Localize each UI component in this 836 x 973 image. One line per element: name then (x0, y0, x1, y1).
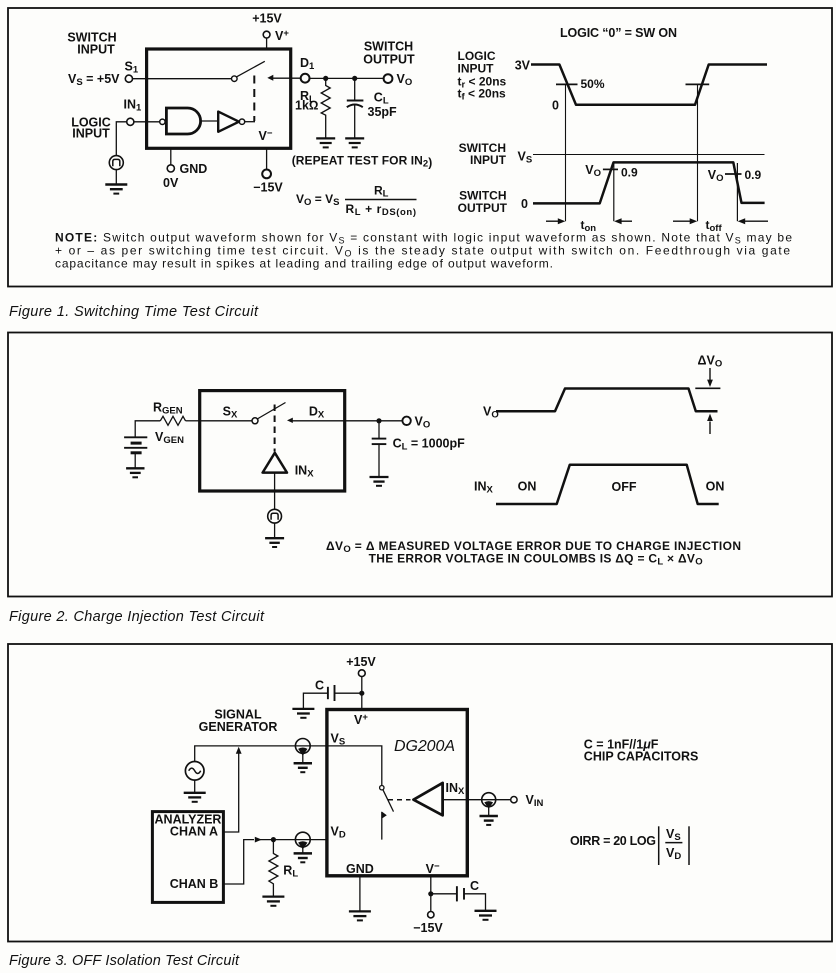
FIGURE 2 FRAME (8, 333, 832, 597)
terminal D1 (301, 74, 310, 83)
svg-text:0V: 0V (163, 176, 179, 190)
50% tick rising (686, 83, 710, 85)
svg-text:capacitance may result in spik: capacitance may result in spikes at lead… (55, 256, 553, 270)
delta arrow down (709, 368, 711, 380)
svg-text:INPUT: INPUT (470, 153, 507, 167)
switch lever fig3 (383, 790, 394, 812)
wire junction to cap (335, 692, 362, 694)
svg-text:VS = +5V: VS = +5V (68, 72, 120, 88)
junction C bottom (428, 891, 433, 896)
ground VS probe (294, 762, 312, 765)
arrow CHAN A up (236, 747, 242, 754)
IC box U1 (147, 49, 291, 148)
svg-text:+15V: +15V (346, 655, 376, 669)
svg-text:ON: ON (706, 479, 725, 493)
arrow into toff right (744, 220, 769, 222)
FIGURE 3 FRAME (8, 644, 832, 942)
wire pulse to ground fig2 (274, 523, 276, 538)
wire battery to ground (134, 454, 136, 468)
resistor RGEN (160, 416, 185, 425)
wire gate to inverter (201, 120, 218, 122)
inverter U3 (218, 112, 239, 132)
IC box U1 fig2 (200, 391, 345, 491)
reference line ton start (565, 85, 567, 222)
svg-text:Figure 2. Charge Injection Tes: Figure 2. Charge Injection Test Circuit (9, 609, 265, 625)
terminal -15V fig3 (428, 912, 434, 918)
ground pulse fig2 (265, 537, 284, 539)
arrow into ton right (620, 220, 633, 222)
wire IN1 to gate (134, 121, 160, 123)
inverter INX fig3 (414, 783, 443, 815)
ground VGEN (126, 467, 144, 469)
terminal IN1 (127, 118, 134, 125)
capacitor C bottom (456, 886, 458, 901)
wire pulse to ground (115, 170, 117, 184)
switch input VS line (533, 154, 765, 156)
arrow into ton left (546, 220, 560, 222)
svg-text:1kΩ: 1kΩ (295, 99, 319, 113)
pin GND wire (170, 148, 172, 165)
junction RL fig3 (271, 837, 276, 842)
svg-text:35pF: 35pF (368, 105, 398, 119)
svg-text:INPUT: INPUT (72, 126, 110, 140)
wire V- (266, 148, 268, 169)
wire box to SX pole (200, 420, 252, 422)
resistor RL (321, 78, 330, 138)
FIGURE 1 FRAME (8, 8, 832, 287)
terminal VO fig2 (402, 417, 410, 425)
svg-text:0: 0 (521, 197, 528, 211)
svg-text:LOGIC “0” = SW ON: LOGIC “0” = SW ON (560, 26, 677, 40)
wire V- pin down (430, 876, 432, 912)
terminal +15V fig3 (358, 670, 365, 677)
wire CHAN A (223, 753, 238, 833)
svg-text:OUTPUT: OUTPUT (363, 53, 415, 67)
svg-text:CHAN B: CHAN B (170, 877, 219, 891)
delta extension line (695, 387, 720, 389)
junction CL fig2 (376, 418, 381, 423)
svg-text:GND: GND (180, 162, 208, 176)
reference line ton end (613, 162, 615, 221)
ground pulse source (105, 183, 127, 185)
svg-text:Figure 3. OFF Isolation Test C: Figure 3. OFF Isolation Test Circuit (9, 953, 240, 969)
wire V+ (266, 38, 268, 49)
capacitor CL fig2 (378, 421, 380, 438)
wire bubble to actuator (245, 121, 255, 123)
wire junction to cap bottom (431, 893, 457, 895)
terminal V+ (263, 31, 270, 38)
inverter output bubble (239, 119, 244, 124)
switch throw arrow fig3 (382, 811, 387, 818)
svg-text:OUTPUT: OUTPUT (458, 201, 508, 215)
ground sine (184, 792, 206, 794)
svg-text:−15V: −15V (413, 921, 443, 935)
wire VGEN to RGEN (135, 421, 160, 437)
ground CL (345, 137, 364, 139)
delta arrow up (709, 422, 711, 435)
logic input waveform (531, 65, 767, 105)
svg-text:50%: 50% (581, 77, 605, 91)
0.9 tick rising output (603, 168, 618, 170)
switch wire VS internal (327, 746, 382, 786)
pulse generator fig2 (268, 509, 282, 523)
junction CL (352, 76, 357, 81)
junction RL (323, 76, 328, 81)
svg-text:C: C (315, 679, 324, 693)
arrow into toff left (673, 220, 692, 222)
svg-text:0.9: 0.9 (745, 168, 762, 182)
AND gate U2 (166, 108, 200, 134)
sine source (185, 762, 204, 781)
FIG2-WAVEFORMS (474, 354, 724, 505)
svg-text:Figure 1. Switching Time Test: Figure 1. Switching Time Test Circuit (9, 304, 259, 320)
svg-text:C: C (470, 879, 479, 893)
switch pole SX (252, 418, 258, 424)
terminal VIN (511, 797, 517, 803)
switch output waveform (533, 162, 765, 203)
svg-text:VO = VS: VO = VS (296, 192, 339, 208)
ground cap top (292, 708, 314, 710)
wire IN1 left to pulse source (116, 122, 126, 156)
ground GND pin (349, 910, 371, 912)
capacitor CL (354, 78, 356, 99)
wire sine to VS pin (195, 746, 327, 762)
dashed actuator line (253, 76, 255, 122)
resistor RL fig3 (269, 840, 278, 896)
capacitor C top (334, 685, 336, 701)
svg-text:tf < 20ns: tf < 20ns (458, 86, 507, 102)
wire S1 to switch pole (133, 78, 232, 80)
VO waveform (496, 389, 718, 412)
50% tick falling (556, 83, 578, 85)
svg-text:INPUT: INPUT (458, 61, 495, 75)
switch pole fig3 (380, 786, 384, 790)
reference line toff start (697, 85, 699, 222)
svg-text:+15V: +15V (252, 12, 282, 26)
svg-text:DG200A: DG200A (394, 738, 455, 755)
dashed actuator fig3 (388, 799, 411, 801)
FIG3-CIRCUIT (152, 655, 698, 935)
battery VGEN (124, 436, 147, 438)
ANALYZER box (152, 812, 223, 903)
svg-text:CHIP CAPACITORS: CHIP CAPACITORS (584, 750, 699, 764)
svg-text:CHAN A: CHAN A (170, 824, 218, 838)
FIG2-CIRCUIT (124, 391, 741, 568)
svg-text:INPUT: INPUT (77, 42, 115, 56)
svg-text:SWITCH: SWITCH (364, 40, 413, 54)
terminal VO (384, 74, 393, 83)
ground RL fig3 (262, 895, 284, 897)
svg-text:(REPEAT TEST FOR IN2): (REPEAT TEST FOR IN2) (292, 153, 433, 169)
ground CL fig2 (370, 476, 389, 478)
arrow CHAN B right (255, 837, 262, 843)
svg-text:OIRR = 20 LOG: OIRR = 20 LOG (570, 834, 656, 848)
abs bar right (688, 826, 690, 865)
switch throw arrow fig2 (287, 418, 293, 423)
junction C top (359, 691, 364, 696)
switch U1 pole (232, 76, 238, 82)
wire GND pin to ground (359, 876, 361, 911)
pulse generator V1 (109, 156, 123, 170)
INX waveform (496, 465, 719, 504)
FIG1-CIRCUIT (67, 12, 432, 218)
fraction bar OIRR (665, 842, 682, 844)
reference line toff end (736, 163, 738, 221)
svg-text:OFF: OFF (612, 480, 637, 494)
switch lever fig2 (257, 403, 285, 420)
ground RL (316, 137, 335, 139)
terminal GND (167, 165, 174, 172)
gate input bubble (160, 119, 165, 124)
wire inverter to pulse (274, 473, 276, 510)
terminal -15V (262, 170, 271, 179)
wire +15V to V+ pin (361, 677, 363, 710)
inverter fig2 (263, 453, 287, 473)
wire CHAN B to VD pin (258, 839, 327, 841)
svg-text:−15V: −15V (253, 181, 283, 195)
wire sine to ground (194, 780, 196, 792)
ground VIN probe (480, 815, 498, 818)
FIG1-WAVEFORMS (458, 26, 769, 234)
wire RGEN to box (186, 420, 200, 422)
svg-text:GENERATOR: GENERATOR (199, 720, 278, 734)
0.9 tick falling output (725, 173, 742, 175)
svg-text:ON: ON (518, 479, 537, 493)
dashed actuator fig2 (274, 405, 276, 452)
ground VD probe (294, 852, 312, 855)
abs bar left (658, 826, 660, 865)
wire INX to VIN (443, 799, 511, 801)
ground cap bottom (475, 910, 497, 912)
DG200A box (327, 710, 467, 876)
VIN probe connector (482, 793, 496, 807)
switch lever (236, 61, 264, 77)
wire CHAN B (223, 840, 254, 884)
wire D1 to VO (310, 77, 384, 79)
VD probe connector (295, 832, 310, 847)
svg-text:GND: GND (346, 862, 374, 876)
svg-text:3V: 3V (515, 59, 531, 73)
wire throw to VD (381, 812, 383, 840)
wire cap bottom to ground (464, 894, 486, 910)
switch throw arrow (267, 75, 273, 81)
NOTE (55, 230, 792, 270)
svg-text:0: 0 (552, 99, 559, 113)
VS probe connector (295, 739, 310, 754)
svg-text:0.9: 0.9 (621, 165, 638, 179)
wire cap to ground (303, 693, 328, 708)
terminal S1 (125, 75, 132, 82)
svg-text:THE ERROR VOLTAGE IN COULOMBS: THE ERROR VOLTAGE IN COULOMBS IS ΔQ = CL… (369, 551, 703, 567)
wire DX to VO (292, 420, 402, 422)
wire arrow to D1 (271, 77, 301, 79)
